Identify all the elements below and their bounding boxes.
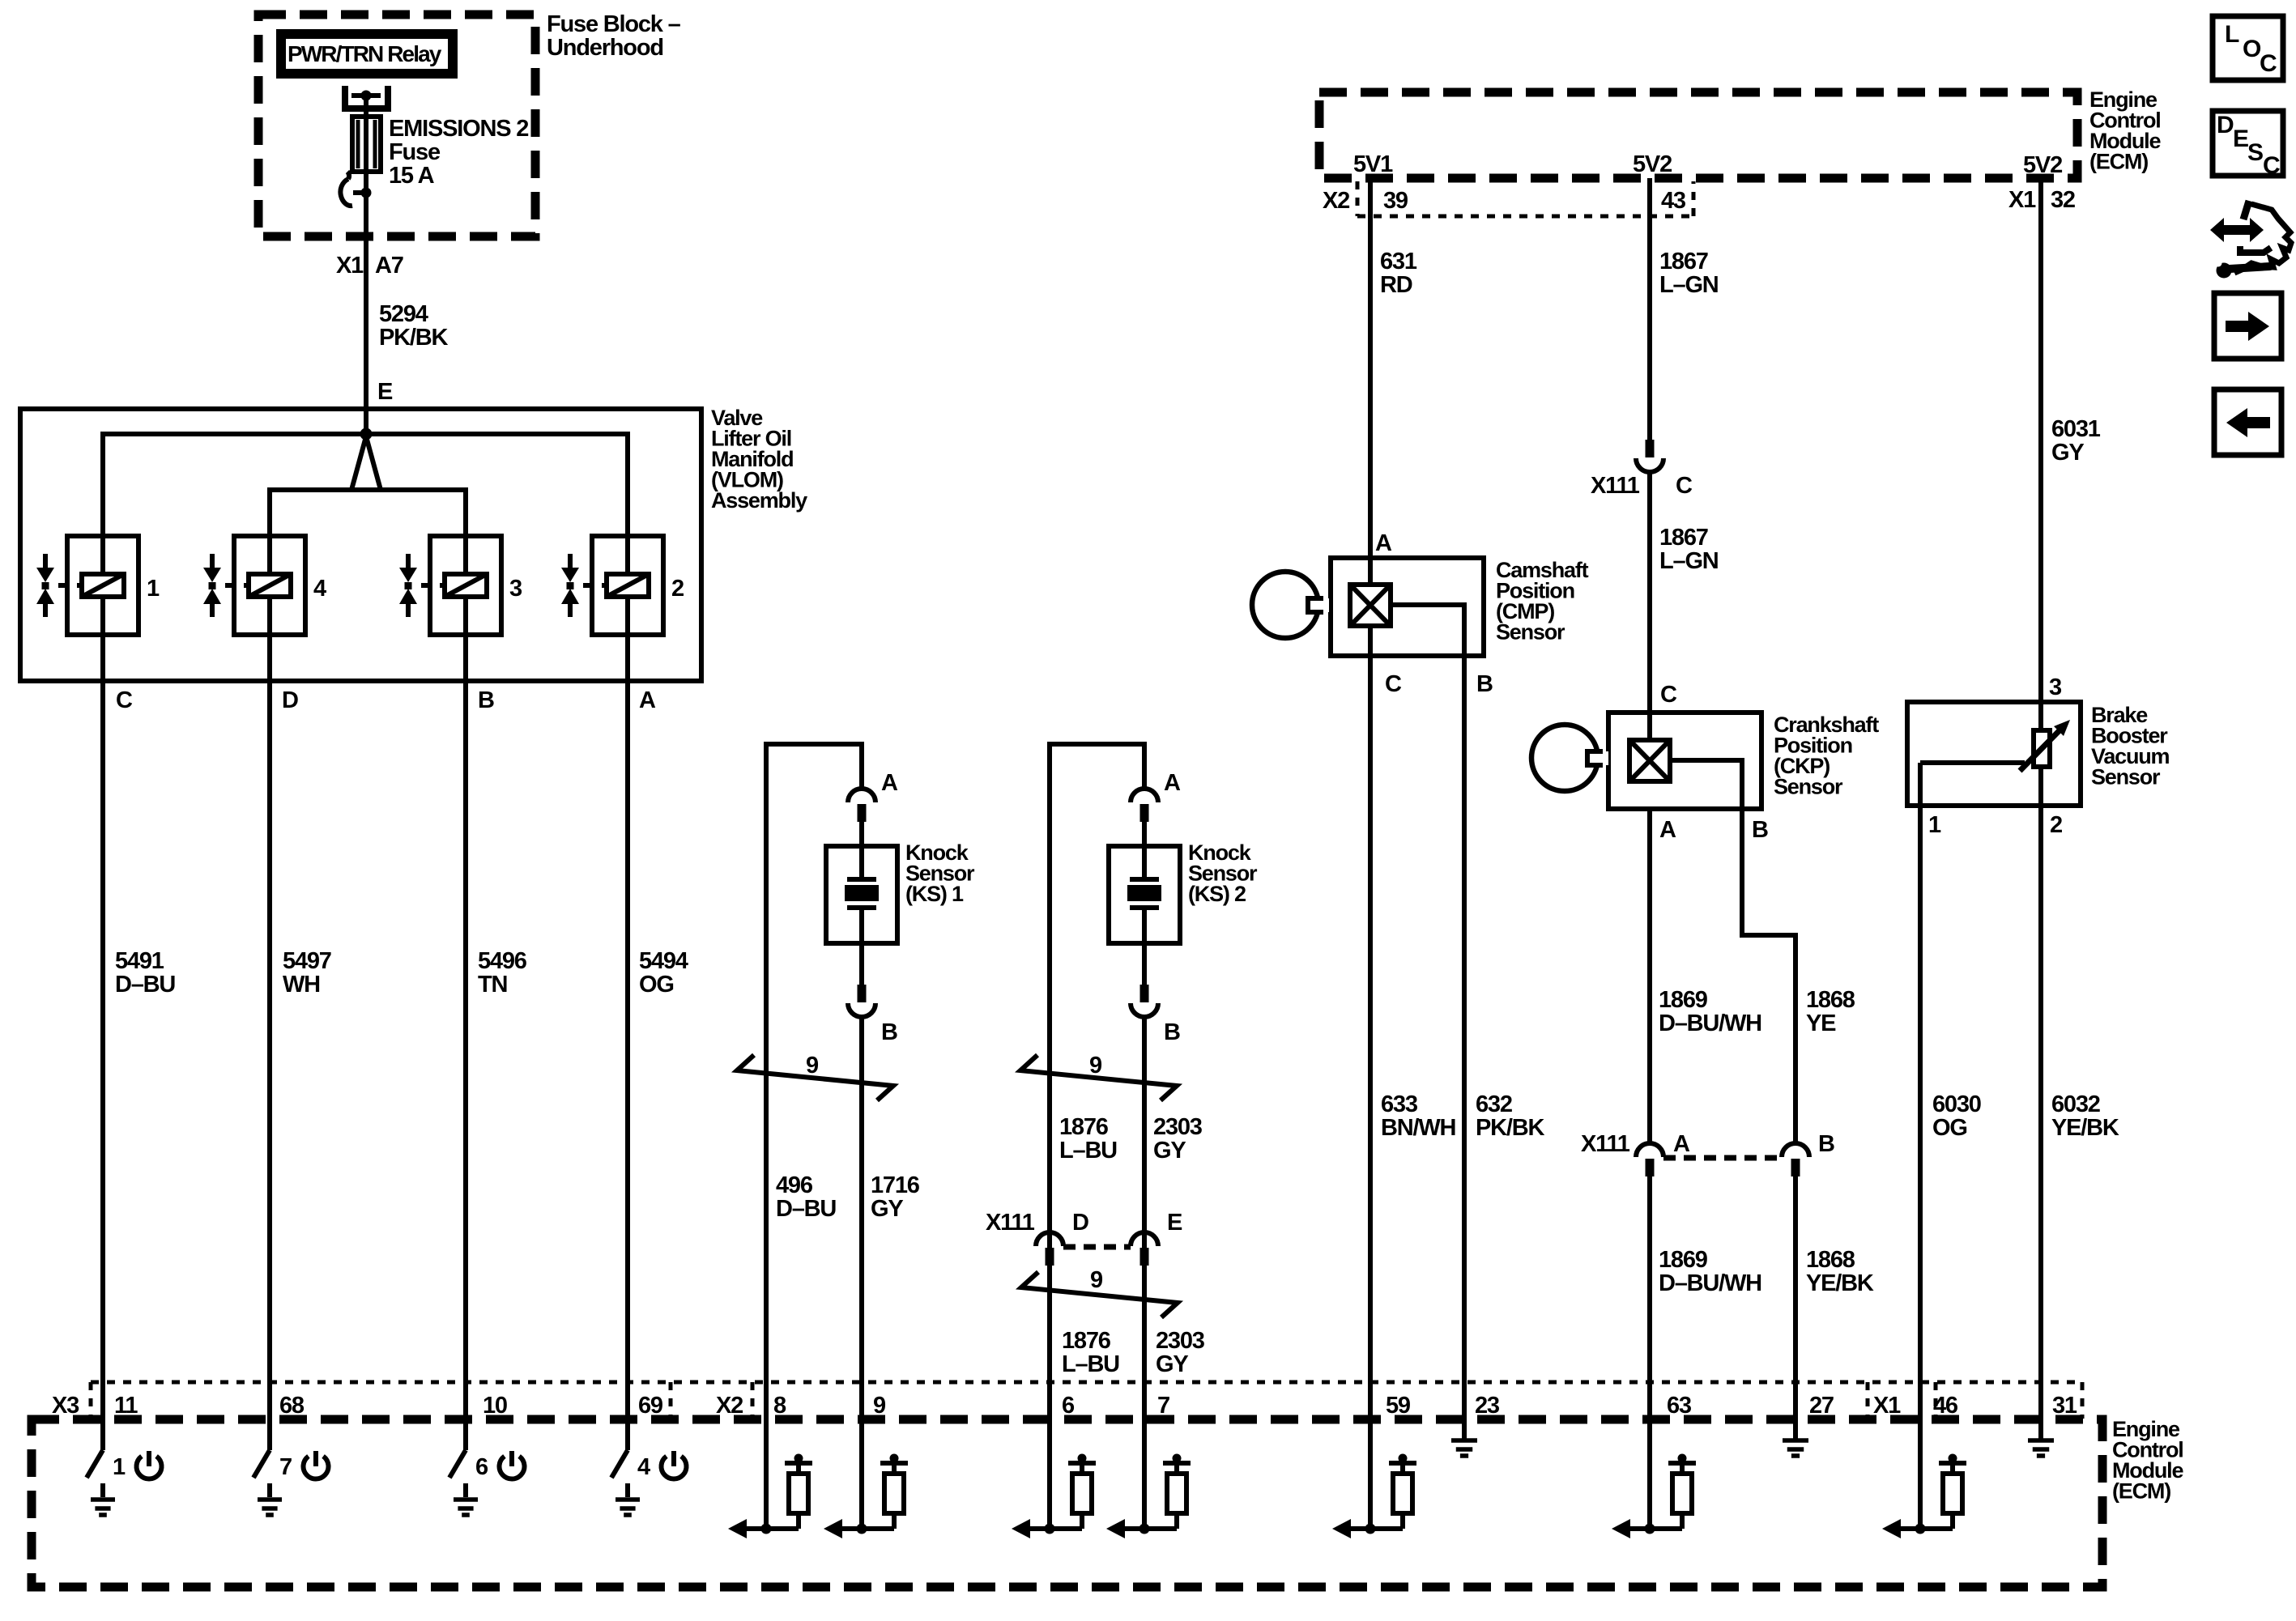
relay contact hook bbox=[340, 172, 371, 206]
CKP reluctor ring bbox=[1531, 725, 1608, 791]
svg-text:C: C bbox=[1385, 671, 1402, 697]
svg-text:Sensor: Sensor bbox=[2091, 765, 2161, 789]
ECM bottom strip pin labels bbox=[52, 1393, 2077, 1419]
svg-text:63: 63 bbox=[1667, 1393, 1692, 1419]
wire 6030 OG (BBV 1 to ECM 46) bbox=[1920, 806, 1981, 1382]
svg-text:5294: 5294 bbox=[379, 301, 428, 327]
pin D label bbox=[282, 687, 298, 713]
svg-text:1: 1 bbox=[113, 1454, 126, 1480]
svg-text:S: S bbox=[2247, 139, 2264, 166]
svg-text:7: 7 bbox=[1157, 1393, 1169, 1419]
ECM driver switch pin 11 (solenoid 1) bbox=[87, 1382, 162, 1515]
svg-text:OG: OG bbox=[1932, 1115, 1967, 1141]
connector X111 pin C bbox=[1591, 440, 1693, 499]
connector X111 pins D and E bbox=[986, 1210, 1182, 1382]
svg-text:X2: X2 bbox=[716, 1393, 743, 1419]
svg-text:7: 7 bbox=[279, 1454, 292, 1480]
svg-text:TN: TN bbox=[478, 972, 507, 998]
svg-text:3: 3 bbox=[2049, 674, 2062, 700]
wire solenoid 2 output A bbox=[625, 536, 630, 1382]
wire 1867 L-GN (ECM 43 to X111 C) bbox=[1650, 178, 1719, 440]
knock sensor KS1 with wires 496 D-BU / 1716 GY bbox=[737, 744, 975, 1382]
svg-text:D–BU/WH: D–BU/WH bbox=[1659, 1270, 1761, 1296]
svg-text:D: D bbox=[282, 687, 298, 713]
wire 1868 YE/BK (X111 B to ECM 27) bbox=[1795, 1176, 1874, 1382]
svg-text:BN/WH: BN/WH bbox=[1381, 1115, 1455, 1141]
svg-text:5497: 5497 bbox=[283, 948, 331, 974]
svg-text:X1: X1 bbox=[1873, 1393, 1901, 1419]
svg-text:L: L bbox=[2225, 21, 2239, 48]
CMP reluctor ring bbox=[1252, 572, 1329, 638]
svg-text:D–BU/WH: D–BU/WH bbox=[1659, 1010, 1761, 1036]
svg-text:1868: 1868 bbox=[1806, 1247, 1855, 1273]
relay output terminal clip bbox=[345, 86, 388, 117]
svg-text:6030: 6030 bbox=[1932, 1091, 1981, 1117]
solenoid valve 2 bbox=[561, 536, 684, 635]
svg-text:Fuse Block –: Fuse Block – bbox=[547, 11, 681, 37]
svg-text:1869: 1869 bbox=[1659, 1247, 1708, 1273]
pin C label bbox=[116, 687, 133, 713]
svg-text:D–BU: D–BU bbox=[115, 972, 175, 998]
svg-text:5V2: 5V2 bbox=[1633, 151, 1672, 177]
wire VLOM feed bus (solenoids 1 and 2) bbox=[103, 434, 628, 536]
svg-text:C: C bbox=[1676, 473, 1693, 499]
svg-text:1716: 1716 bbox=[871, 1172, 920, 1198]
wire label 5491 D-BU bbox=[115, 948, 175, 998]
svg-text:RD: RD bbox=[1380, 272, 1412, 298]
svg-text:(ECM): (ECM) bbox=[2089, 150, 2148, 174]
svg-text:1876: 1876 bbox=[1062, 1328, 1111, 1354]
ECM input pin 59 bias network bbox=[1332, 1382, 1416, 1538]
svg-text:E: E bbox=[1167, 1210, 1182, 1236]
engine control module ECM (bottom dashed box) bbox=[32, 1417, 2183, 1587]
wire VLOM inner bus (solenoids 4 and 3) bbox=[270, 436, 466, 536]
svg-text:A: A bbox=[881, 770, 898, 796]
svg-text:E: E bbox=[2233, 126, 2249, 152]
icon LOC box bbox=[2213, 16, 2283, 80]
svg-text:GY: GY bbox=[871, 1196, 903, 1222]
svg-text:27: 27 bbox=[1809, 1393, 1834, 1419]
svg-text:YE/BK: YE/BK bbox=[2051, 1115, 2119, 1141]
svg-text:PK/BK: PK/BK bbox=[379, 325, 448, 351]
pin B label bbox=[478, 687, 494, 713]
svg-text:6032: 6032 bbox=[2051, 1091, 2100, 1117]
svg-text:A7: A7 bbox=[375, 253, 403, 279]
svg-text:C: C bbox=[116, 687, 133, 713]
svg-text:46: 46 bbox=[1933, 1393, 1958, 1419]
solenoid valve 4 bbox=[203, 536, 326, 635]
svg-text:43: 43 bbox=[1661, 188, 1686, 214]
svg-text:GY: GY bbox=[2051, 440, 2084, 466]
svg-text:X111: X111 bbox=[986, 1210, 1035, 1236]
wire 631 RD (ECM 39 to CMP A) bbox=[1370, 178, 1417, 585]
svg-text:(ECM): (ECM) bbox=[2112, 1479, 2170, 1504]
svg-text:X111: X111 bbox=[1591, 473, 1640, 499]
icon next arrow box bbox=[2214, 293, 2281, 359]
svg-text:D: D bbox=[1072, 1210, 1088, 1236]
svg-text:2: 2 bbox=[671, 576, 684, 602]
svg-text:GY: GY bbox=[1156, 1351, 1188, 1377]
svg-text:WH: WH bbox=[283, 972, 320, 998]
svg-text:Underhood: Underhood bbox=[547, 35, 663, 61]
svg-text:1867: 1867 bbox=[1659, 525, 1708, 551]
svg-text:L–GN: L–GN bbox=[1659, 548, 1719, 574]
svg-text:X111: X111 bbox=[1581, 1131, 1630, 1157]
svg-text:23: 23 bbox=[1475, 1393, 1500, 1419]
svg-text:1: 1 bbox=[147, 576, 160, 602]
ECM driver switch pin 68 (solenoid 7) bbox=[253, 1382, 329, 1515]
svg-text:L–BU: L–BU bbox=[1059, 1138, 1117, 1164]
svg-text:11: 11 bbox=[114, 1393, 138, 1419]
svg-text:1869: 1869 bbox=[1659, 987, 1708, 1013]
svg-text:A: A bbox=[639, 687, 656, 713]
ECM input pin 46 bias network bbox=[1882, 1382, 1966, 1538]
svg-text:32: 32 bbox=[2051, 187, 2075, 213]
ECM X1 pin 32 bbox=[2008, 152, 2075, 213]
svg-text:31: 31 bbox=[2052, 1393, 2077, 1419]
svg-text:69: 69 bbox=[638, 1393, 663, 1419]
icon hand with wrench bbox=[2210, 201, 2291, 279]
twisted pair 9 below X111 D/E bbox=[1021, 1267, 1205, 1377]
svg-text:YE/BK: YE/BK bbox=[1806, 1270, 1874, 1296]
ECM driver switch pin 69 (solenoid 4) bbox=[611, 1382, 686, 1515]
svg-text:PWR/TRN Relay: PWR/TRN Relay bbox=[288, 41, 442, 66]
svg-text:4: 4 bbox=[313, 576, 326, 602]
svg-text:1: 1 bbox=[1928, 812, 1941, 838]
svg-text:2303: 2303 bbox=[1156, 1328, 1205, 1354]
solenoid valve 3 bbox=[399, 536, 522, 635]
svg-text:59: 59 bbox=[1386, 1393, 1411, 1419]
connector X111 pins A and B bbox=[1581, 1131, 1834, 1176]
wire label 5497 WH bbox=[283, 948, 331, 998]
svg-text:EMISSIONS 2: EMISSIONS 2 bbox=[389, 116, 528, 142]
wire 1867 L-GN (X111 C to CKP C) bbox=[1650, 473, 1719, 740]
ECM input pin 7 bias network bbox=[1106, 1382, 1191, 1538]
svg-text:9: 9 bbox=[1089, 1053, 1102, 1079]
ECM ground pin 23 bbox=[1451, 1382, 1477, 1456]
fuse block - underhood (dashed box) bbox=[258, 11, 681, 236]
ECM input pin 8 bias network bbox=[728, 1382, 812, 1538]
ECM bottom connector strip bbox=[91, 1382, 2082, 1419]
svg-text:1876: 1876 bbox=[1059, 1114, 1109, 1140]
svg-text:O: O bbox=[2243, 36, 2261, 62]
wire 6031 GY (ECM 32 to BBV 3) bbox=[2041, 178, 2101, 702]
svg-text:633: 633 bbox=[1381, 1091, 1418, 1117]
svg-text:X1: X1 bbox=[2008, 187, 2036, 213]
svg-text:4: 4 bbox=[637, 1454, 650, 1480]
engine control module ECM (top dashed box) bbox=[1319, 87, 2161, 178]
wire 1868 YE (CKP B to X111 B) bbox=[1742, 809, 1855, 1143]
svg-text:(KS) 1: (KS) 1 bbox=[905, 882, 964, 906]
svg-text:B: B bbox=[1818, 1131, 1834, 1157]
ECM ground pin 27 bbox=[1783, 1382, 1808, 1456]
svg-text:C: C bbox=[1660, 682, 1677, 708]
svg-text:8: 8 bbox=[773, 1393, 786, 1419]
svg-text:9: 9 bbox=[1090, 1267, 1103, 1293]
svg-text:6: 6 bbox=[475, 1454, 488, 1480]
svg-text:A: A bbox=[1673, 1131, 1690, 1157]
svg-text:1867: 1867 bbox=[1659, 249, 1708, 274]
svg-text:Sensor: Sensor bbox=[1496, 620, 1565, 645]
svg-text:Sensor: Sensor bbox=[1774, 775, 1843, 799]
svg-text:10: 10 bbox=[483, 1393, 507, 1419]
svg-text:5494: 5494 bbox=[639, 948, 688, 974]
wire label 5494 OG bbox=[639, 948, 688, 998]
wire 6032 YE/BK (BBV 2 to ECM 31) bbox=[2041, 806, 2119, 1382]
svg-text:631: 631 bbox=[1380, 249, 1417, 274]
svg-text:C: C bbox=[2260, 50, 2277, 77]
svg-text:1868: 1868 bbox=[1806, 987, 1855, 1013]
wire solenoid 3 output B bbox=[463, 536, 468, 1382]
svg-text:5491: 5491 bbox=[115, 948, 164, 974]
svg-text:X1: X1 bbox=[336, 253, 364, 279]
brake booster vacuum sensor bbox=[1907, 702, 2170, 838]
pin A label bbox=[639, 687, 656, 713]
icon DESC box bbox=[2213, 111, 2283, 179]
svg-text:39: 39 bbox=[1383, 188, 1408, 214]
svg-text:PK/BK: PK/BK bbox=[1476, 1115, 1544, 1141]
ECM driver switch pin 10 (solenoid 6) bbox=[449, 1382, 525, 1515]
svg-text:OG: OG bbox=[639, 972, 674, 998]
relay PWR/TRN Relay bbox=[281, 34, 453, 74]
svg-text:6: 6 bbox=[1062, 1393, 1075, 1419]
ECM input pin 63 bias network bbox=[1612, 1382, 1696, 1538]
svg-text:E: E bbox=[377, 379, 393, 405]
wire label 5496 TN bbox=[478, 948, 527, 998]
svg-text:2303: 2303 bbox=[1153, 1114, 1203, 1140]
svg-text:B: B bbox=[1164, 1019, 1180, 1045]
wire 633 BN/WH (CMP C to ECM 59) bbox=[1370, 626, 1455, 1382]
ECM input pin 6 bias network bbox=[1012, 1382, 1096, 1538]
svg-text:L–GN: L–GN bbox=[1659, 272, 1719, 298]
icon back arrow box bbox=[2214, 389, 2281, 455]
wire 1869 D-BU/WH (CKP A to X111 A) bbox=[1650, 809, 1761, 1143]
svg-text:B: B bbox=[478, 687, 494, 713]
ECM X2 connector strip (pins 39 43) bbox=[1323, 151, 1693, 216]
svg-text:A: A bbox=[1164, 770, 1181, 796]
wire 5294 PK/BK (relay to VLOM pin E) bbox=[336, 96, 448, 434]
svg-text:5V2: 5V2 bbox=[2023, 152, 2062, 178]
ECM input pin 9 bias network bbox=[824, 1382, 908, 1538]
svg-text:5496: 5496 bbox=[478, 948, 527, 974]
svg-text:B: B bbox=[1476, 671, 1493, 697]
svg-text:3: 3 bbox=[509, 576, 522, 602]
crankshaft position CKP sensor bbox=[1608, 713, 1879, 843]
svg-text:D–BU: D–BU bbox=[776, 1196, 836, 1222]
svg-text:X2: X2 bbox=[1323, 188, 1349, 214]
wire 632 PK/BK (CMP B to ECM 23) bbox=[1464, 656, 1544, 1382]
svg-text:B: B bbox=[1752, 817, 1768, 843]
svg-text:(KS) 2: (KS) 2 bbox=[1188, 882, 1246, 906]
svg-text:15 A: 15 A bbox=[389, 163, 435, 189]
svg-text:Fuse: Fuse bbox=[389, 139, 441, 165]
svg-text:A: A bbox=[1659, 817, 1676, 843]
fuse EMISSIONS 2 15A bbox=[352, 116, 528, 189]
ECM ground pin 31 bbox=[2028, 1382, 2054, 1456]
svg-text:Assembly: Assembly bbox=[711, 488, 807, 513]
VLOM assembly box bbox=[20, 406, 807, 681]
svg-text:A: A bbox=[1375, 530, 1392, 556]
camshaft position CMP sensor bbox=[1331, 558, 1589, 697]
svg-text:6031: 6031 bbox=[2051, 416, 2101, 442]
knock sensor KS2 with wires 1876 L-BU / 2303 GY bbox=[1020, 744, 1258, 1382]
svg-text:X3: X3 bbox=[52, 1393, 79, 1419]
svg-text:632: 632 bbox=[1476, 1091, 1512, 1117]
svg-text:496: 496 bbox=[776, 1172, 813, 1198]
svg-text:C: C bbox=[2263, 152, 2281, 179]
svg-text:B: B bbox=[881, 1019, 897, 1045]
solenoid valve 1 bbox=[36, 536, 160, 635]
svg-text:2: 2 bbox=[2050, 812, 2062, 838]
svg-text:YE: YE bbox=[1806, 1010, 1836, 1036]
svg-text:68: 68 bbox=[279, 1393, 305, 1419]
svg-text:9: 9 bbox=[806, 1053, 819, 1079]
wire solenoid 1 output C bbox=[100, 536, 105, 1382]
node E junction bbox=[360, 428, 373, 440]
svg-text:5V1: 5V1 bbox=[1353, 151, 1393, 177]
svg-text:9: 9 bbox=[873, 1393, 886, 1419]
svg-text:D: D bbox=[2217, 112, 2234, 138]
wire 1869 D-BU/WH (X111 A to ECM 63) bbox=[1650, 1176, 1761, 1382]
svg-text:GY: GY bbox=[1153, 1138, 1186, 1164]
wire solenoid 4 output D bbox=[267, 536, 272, 1382]
svg-text:L–BU: L–BU bbox=[1062, 1351, 1119, 1377]
